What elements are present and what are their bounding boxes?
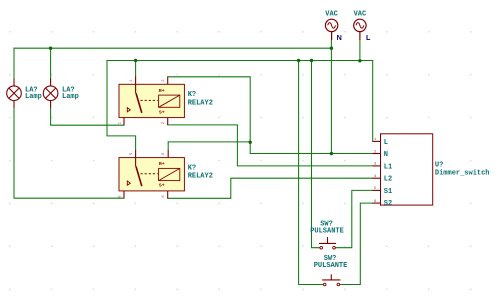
svg-text:K?: K? [188,91,196,99]
svg-text:K?: K? [188,165,196,173]
svg-text:S1: S1 [384,188,392,196]
svg-text:R+: R+ [159,161,165,167]
svg-text:L2: L2 [384,176,392,184]
svg-text:S2: S2 [384,200,392,208]
svg-text:N: N [384,151,388,159]
svg-text:L: L [366,33,371,42]
svg-text:S+: S+ [159,183,165,189]
svg-text:Dimmer_switch: Dimmer_switch [435,170,490,178]
svg-text:PULSANTE: PULSANTE [310,227,344,235]
svg-text:RELAY2: RELAY2 [188,173,213,181]
svg-text:PULSANTE: PULSANTE [314,262,348,270]
svg-text:L: L [384,139,388,147]
svg-text:VAC: VAC [325,11,338,19]
svg-text:Lamp: Lamp [62,93,79,101]
svg-text:S+: S+ [159,109,165,115]
svg-text:L1: L1 [384,163,392,171]
svg-text:VAC: VAC [354,11,367,19]
svg-text:U?: U? [435,161,443,169]
svg-text:Lamp: Lamp [25,93,42,101]
svg-text:R+: R+ [159,88,165,94]
svg-text:RELAY2: RELAY2 [188,99,213,107]
svg-text:N: N [337,33,342,42]
